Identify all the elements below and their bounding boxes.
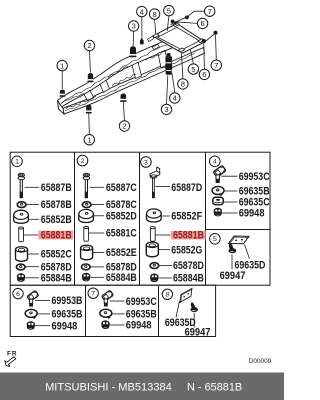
svg-text:65852F: 65852F bbox=[171, 211, 202, 223]
cell2 nut 65884B bbox=[82, 273, 90, 281]
table row1 divider a bbox=[74, 152, 76, 285]
svg-text:69953B: 69953B bbox=[52, 295, 83, 307]
cell3 spacer 65881B bbox=[150, 227, 155, 242]
cell1 washer leader bbox=[26, 203, 39, 205]
cell4 sqwasher 69635C bbox=[213, 197, 223, 204]
leader 8b bbox=[182, 54, 183, 79]
cell7 washer leader bbox=[112, 313, 125, 315]
cell3 mount leader bbox=[161, 215, 170, 217]
svg-text:65852G: 65852G bbox=[171, 244, 202, 256]
leader 2b bbox=[123, 102, 124, 121]
leader 6b bbox=[203, 43, 206, 69]
cell4 stud leader bbox=[221, 175, 237, 177]
svg-text:65852E: 65852E bbox=[106, 247, 137, 259]
frame crossmember 1 bbox=[84, 91, 94, 101]
cell1 cyl 65852C bbox=[16, 247, 28, 262]
cell3 highlight 65881B bbox=[171, 231, 206, 240]
svg-text:4: 4 bbox=[140, 7, 144, 16]
cell2 washer 65878D bbox=[82, 264, 91, 270]
body mount 1b bbox=[86, 105, 92, 114]
deck bottom corner slot bbox=[178, 48, 184, 52]
svg-text:6: 6 bbox=[200, 19, 204, 28]
cell1 cyl leader bbox=[28, 253, 39, 255]
deck node 6b bbox=[202, 39, 206, 43]
cell6 stud leader bbox=[35, 299, 50, 301]
leader 1a bbox=[61, 71, 63, 89]
deck arm node 7a bbox=[185, 16, 189, 20]
svg-text:7: 7 bbox=[91, 291, 95, 298]
cell2 spacer leader bbox=[89, 232, 104, 234]
cell2 washer2 leader bbox=[90, 266, 104, 268]
table row2 divider a bbox=[85, 285, 87, 336]
cell1 highlight 65881B bbox=[38, 231, 73, 240]
frame crossmember 2 bbox=[100, 80, 110, 92]
leader 3b bbox=[167, 75, 168, 104]
cell6 nut leader bbox=[35, 325, 50, 327]
callout 6 lower bbox=[199, 69, 209, 79]
cell7 washer 69635B bbox=[100, 309, 112, 318]
svg-text:7: 7 bbox=[208, 7, 212, 16]
svg-text:65887B: 65887B bbox=[41, 182, 72, 194]
callout 8 upper bbox=[149, 9, 159, 19]
svg-text:6: 6 bbox=[202, 70, 206, 79]
svg-text:4: 4 bbox=[213, 159, 217, 166]
deck arm node 6a bbox=[171, 20, 175, 24]
cell3 bolt leader bbox=[156, 186, 171, 188]
footer bar bbox=[0, 373, 284, 400]
leader 2a bbox=[89, 51, 92, 73]
svg-text:3: 3 bbox=[164, 105, 168, 114]
cell4 washer 69635B bbox=[212, 187, 224, 196]
cell6 number bbox=[13, 288, 23, 298]
table row1 divider b bbox=[139, 152, 141, 285]
svg-text:69948: 69948 bbox=[126, 320, 152, 332]
rear bracket squiggle bbox=[146, 52, 166, 61]
tall mount 3b4b bbox=[165, 53, 172, 75]
cell4 number bbox=[210, 156, 221, 167]
callout 8 lower bbox=[178, 79, 188, 89]
svg-text:4: 4 bbox=[173, 94, 177, 103]
cell2 nut leader bbox=[90, 276, 104, 278]
svg-text:3: 3 bbox=[131, 22, 135, 31]
leader 4a bbox=[141, 17, 143, 39]
cell2 washer leader bbox=[91, 203, 104, 205]
cell1 washer 65878B bbox=[17, 202, 26, 208]
leader 5b bbox=[190, 49, 193, 64]
cell1 bolt leader bbox=[25, 186, 40, 188]
deck left lip bbox=[148, 36, 154, 41]
callout 4 upper bbox=[137, 6, 147, 16]
svg-text:3: 3 bbox=[144, 159, 148, 166]
cell3 nut 65884B bbox=[151, 274, 159, 282]
callout 1 front-left bbox=[57, 60, 67, 70]
cell7 nut leader bbox=[110, 324, 125, 326]
cell4 nut 69948 bbox=[214, 208, 222, 216]
svg-text:69953C: 69953C bbox=[239, 171, 270, 183]
svg-text:65881B: 65881B bbox=[173, 230, 204, 242]
svg-text:2: 2 bbox=[122, 122, 126, 131]
body mount 1a bbox=[60, 90, 66, 97]
cell1 mount leader bbox=[29, 218, 40, 220]
cell7 stud 69953C bbox=[102, 290, 114, 306]
far rail inner line bbox=[60, 45, 168, 105]
mid bracket squiggle bbox=[108, 67, 128, 78]
cell3 washer leader bbox=[159, 265, 172, 267]
leader 7b bbox=[215, 35, 218, 60]
cell7 stud leader bbox=[110, 300, 125, 302]
deck right arm bbox=[205, 33, 216, 42]
rear deck plate bbox=[153, 24, 205, 54]
cell1 bolt 65887B bbox=[18, 173, 25, 198]
callout 7 lower bbox=[211, 60, 221, 70]
cell4 stud 69953C bbox=[213, 165, 226, 182]
svg-text:65887D: 65887D bbox=[171, 182, 202, 194]
svg-text:8: 8 bbox=[152, 10, 156, 19]
svg-text:69948: 69948 bbox=[239, 208, 265, 220]
callout 1 lower bbox=[84, 135, 94, 145]
svg-text:65881C: 65881C bbox=[106, 228, 137, 240]
cell3 hook bolt 65887D bbox=[150, 167, 160, 198]
svg-text:65878D: 65878D bbox=[173, 260, 204, 272]
mid bracket squiggle 2 bbox=[112, 75, 136, 87]
deck rear arm bbox=[171, 16, 190, 25]
callout 5 lower bbox=[188, 64, 198, 74]
svg-text:2: 2 bbox=[87, 41, 91, 50]
table row2 divider b bbox=[158, 285, 160, 336]
svg-text:65884B: 65884B bbox=[173, 273, 204, 285]
cell2 mount 65852D bbox=[79, 209, 94, 222]
cell8 bracket leader bbox=[176, 301, 180, 317]
cell2 bolt leader bbox=[90, 186, 105, 188]
svg-text:2: 2 bbox=[81, 158, 85, 165]
callout 4 lower bbox=[170, 93, 180, 103]
deck inner line bbox=[158, 27, 200, 50]
table row1 divider c bbox=[205, 152, 207, 285]
svg-text:65884B: 65884B bbox=[41, 272, 72, 284]
mount node 4a bbox=[140, 39, 144, 45]
callout 3 upper bbox=[128, 21, 138, 31]
cell2 cyl leader bbox=[93, 252, 104, 254]
frame crossmember 4 bbox=[158, 50, 168, 68]
callout 2 lower bbox=[119, 121, 129, 131]
cell7 nut 69948 bbox=[102, 321, 110, 329]
svg-text:69948: 69948 bbox=[52, 320, 78, 332]
cell4 nut leader bbox=[222, 212, 238, 214]
near rail end slot bbox=[152, 44, 159, 49]
cell1 spacer leader bbox=[24, 234, 39, 236]
cell3 washer 65878D bbox=[150, 263, 159, 269]
cell4 sqwasher leader bbox=[223, 201, 237, 203]
FR arrow bbox=[5, 357, 16, 367]
svg-text:5: 5 bbox=[191, 65, 195, 74]
cell3 cyl 65852G bbox=[146, 242, 158, 257]
cell8 screw leader bbox=[193, 313, 195, 328]
cell2 cyl 65852E bbox=[81, 245, 93, 260]
cell2 bolt 65887C bbox=[83, 173, 90, 198]
leader 8a bbox=[155, 20, 156, 34]
cell5 bracket leader bbox=[245, 245, 250, 259]
deck node 7b bbox=[214, 31, 218, 35]
svg-text:8: 8 bbox=[166, 292, 170, 299]
svg-text:65852C: 65852C bbox=[41, 249, 72, 261]
table row2 border bbox=[10, 285, 215, 336]
cell2 mount leader bbox=[94, 215, 105, 217]
cell1 nut 65884B bbox=[17, 274, 25, 282]
svg-text:N - 65881B: N - 65881B bbox=[187, 381, 242, 393]
svg-text:5: 5 bbox=[167, 6, 171, 15]
svg-text:1: 1 bbox=[87, 135, 91, 144]
svg-text:5: 5 bbox=[213, 236, 217, 243]
body mount 3a bbox=[130, 46, 137, 57]
svg-text:69635B: 69635B bbox=[52, 309, 83, 321]
cell2 spacer 65881C bbox=[84, 227, 89, 242]
cell1 spacer 65881B bbox=[19, 227, 24, 242]
body mount 2a bbox=[87, 73, 93, 82]
cell2 washer 65878C bbox=[82, 202, 91, 208]
cell1 number bbox=[12, 156, 23, 167]
near rail inner line bbox=[65, 54, 195, 112]
deck right corner slot bbox=[198, 39, 204, 43]
svg-text:1: 1 bbox=[15, 159, 19, 166]
frame near rail bbox=[63, 48, 205, 114]
cell1 nut leader bbox=[25, 277, 39, 279]
cell6 nut 69948 bbox=[27, 322, 35, 330]
leader 6a bbox=[174, 22, 197, 24]
svg-text:65878C: 65878C bbox=[106, 199, 137, 211]
cell5 bracket 69635D bbox=[227, 233, 250, 247]
cell4 washer leader bbox=[224, 190, 237, 192]
cell8 screw 69947 bbox=[190, 302, 198, 312]
front bracket squiggle 2 bbox=[66, 96, 96, 109]
svg-text:69953C: 69953C bbox=[126, 296, 157, 308]
cell3 cyl leader bbox=[159, 249, 171, 251]
callout 5 upper bbox=[164, 5, 174, 15]
body mount 2b bbox=[120, 93, 126, 101]
cell1 washer 65878D bbox=[16, 264, 25, 270]
cell4/5 divider bbox=[206, 229, 271, 231]
svg-text:65852B: 65852B bbox=[41, 214, 72, 226]
svg-text:65887C: 65887C bbox=[106, 182, 137, 194]
table row1 border bbox=[10, 152, 270, 285]
cell8 number bbox=[162, 289, 172, 299]
cell3 mount 65852F bbox=[147, 209, 162, 222]
svg-text:65881B: 65881B bbox=[41, 230, 72, 242]
cell1 mount 65852B bbox=[14, 210, 29, 223]
svg-text:69947: 69947 bbox=[185, 326, 211, 338]
frame crossmember 3 bbox=[132, 62, 142, 78]
cell3 number bbox=[141, 157, 152, 168]
cell5 screw 69947 bbox=[228, 243, 236, 254]
deck top corner slot bbox=[173, 23, 179, 27]
leader 5a bbox=[167, 16, 169, 31]
cell6 washer leader bbox=[37, 313, 50, 315]
cell3 spacer leader bbox=[155, 234, 170, 236]
svg-text:69947: 69947 bbox=[220, 270, 246, 282]
leader 7a bbox=[188, 11, 205, 17]
svg-text:65884B: 65884B bbox=[106, 272, 137, 284]
cell1 washer2 leader bbox=[25, 266, 39, 268]
leader 4b bbox=[172, 73, 175, 93]
cell3 nut leader bbox=[158, 277, 172, 279]
callout 3 lower bbox=[161, 104, 171, 114]
deck left corner slot bbox=[153, 34, 159, 38]
cell6 stud 69953B bbox=[27, 290, 39, 306]
front bracket squiggle bbox=[62, 94, 86, 104]
svg-text:FR: FR bbox=[7, 350, 18, 357]
frame far rail bbox=[58, 37, 174, 109]
cell6 washer 69635B bbox=[25, 309, 37, 318]
svg-text:8: 8 bbox=[181, 80, 185, 89]
cell5 screw leader bbox=[231, 255, 233, 270]
cell7 number bbox=[88, 288, 98, 298]
frame front crossmember bbox=[58, 100, 64, 114]
svg-text:1: 1 bbox=[60, 61, 64, 70]
leader 3a bbox=[132, 31, 135, 46]
cell8 bracket 69635D bbox=[176, 286, 195, 304]
svg-text:65852D: 65852D bbox=[106, 210, 137, 222]
leader 1b bbox=[88, 114, 91, 135]
svg-text:65878B: 65878B bbox=[41, 199, 72, 211]
callout 2 upper bbox=[84, 40, 94, 50]
cell2 number bbox=[77, 155, 88, 166]
callout 6 upper bbox=[197, 18, 207, 28]
svg-text:D00009: D00009 bbox=[249, 358, 272, 365]
callout 7 upper bbox=[205, 6, 215, 16]
svg-text:MITSUBISHI - MB513384: MITSUBISHI - MB513384 bbox=[45, 381, 172, 393]
cell5 number bbox=[210, 234, 221, 245]
svg-text:7: 7 bbox=[214, 61, 218, 70]
svg-text:6: 6 bbox=[16, 291, 20, 298]
